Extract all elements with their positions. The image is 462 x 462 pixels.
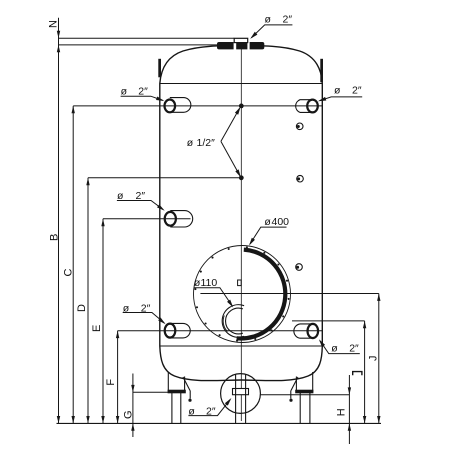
port ø2in bottom-right opening xyxy=(308,324,319,338)
arrow E top xyxy=(101,219,104,226)
arrow G bottom outside xyxy=(131,423,134,430)
port ø2in top-left opening xyxy=(165,100,176,113)
arrow F bottom xyxy=(116,416,119,423)
extension line leg bracket bottom xyxy=(133,391,169,393)
leader bottom-left port label xyxy=(123,313,165,323)
svg-text:E: E xyxy=(91,325,103,332)
port ø2in mid-left opening xyxy=(165,212,176,226)
top dished head xyxy=(160,46,322,84)
leader top flange label xyxy=(252,25,293,38)
lifting lug right xyxy=(320,59,323,83)
svg-text:2″: 2″ xyxy=(136,190,146,202)
ground baseline xyxy=(57,422,382,424)
svg-text:ø: ø xyxy=(334,85,341,97)
dimension line C xyxy=(72,106,74,424)
extension line dome apex xyxy=(59,44,218,46)
stub ø110 mid arc xyxy=(223,316,227,332)
svg-text:2″: 2″ xyxy=(283,13,293,25)
leg left tube xyxy=(171,393,173,423)
extension line drain centre xyxy=(260,394,349,396)
arrow N bottom / B top xyxy=(57,45,60,52)
drain pipe xyxy=(235,375,237,424)
svg-text:ø: ø xyxy=(331,342,338,354)
svg-text:2″: 2″ xyxy=(352,85,362,97)
port ø2in bottom-right body xyxy=(294,324,313,338)
drain spigot rectangle xyxy=(233,389,249,395)
leg right tube xyxy=(299,393,301,423)
dimension line J xyxy=(378,294,380,424)
svg-text:2″: 2″ xyxy=(349,342,359,354)
top flange neck xyxy=(234,38,248,42)
svg-text:ø: ø xyxy=(265,13,272,25)
leader flange ø400 label xyxy=(250,227,287,244)
arrow I bottom xyxy=(363,416,366,423)
sensor node lower on axis xyxy=(239,175,244,180)
sensor node upper on axis xyxy=(239,104,244,109)
bottom dished head xyxy=(160,346,322,381)
stub ø110 inner xyxy=(226,308,243,334)
svg-text:400: 400 xyxy=(272,216,290,228)
dimension line D xyxy=(87,178,89,424)
extension line lower sensor node xyxy=(88,177,241,179)
dimension line F xyxy=(117,331,119,424)
port ø2in bottom-left body xyxy=(170,323,190,338)
thermowell socket mid-right xyxy=(297,175,304,182)
tank shell left wall xyxy=(159,84,161,347)
extension line bottom-right port top xyxy=(292,320,365,322)
leader sensor label lower xyxy=(221,141,240,175)
svg-text:2″: 2″ xyxy=(206,406,216,418)
extension line lower ports xyxy=(118,330,323,332)
arrow C bottom xyxy=(72,416,75,423)
leg right bracket xyxy=(312,372,314,392)
svg-text:ø: ø xyxy=(123,303,130,315)
arrow N top xyxy=(57,31,60,38)
svg-text:G: G xyxy=(122,410,134,419)
thermowell socket upper-right xyxy=(296,123,303,130)
svg-text:ø: ø xyxy=(188,406,195,418)
svg-text:F: F xyxy=(105,379,117,386)
top flange bolt bar xyxy=(217,42,264,49)
tank shell right wall xyxy=(321,84,323,347)
port ø2in top-right opening xyxy=(307,100,318,113)
extension line mid-left port xyxy=(103,218,191,220)
svg-text:B: B xyxy=(49,234,61,241)
leader sensor label upper xyxy=(221,109,239,142)
label I xyxy=(353,372,362,376)
svg-text:N: N xyxy=(47,20,59,28)
leader stub ø110 label xyxy=(194,288,232,306)
top tangent weld line xyxy=(160,83,322,85)
svg-text:ø: ø xyxy=(187,137,194,149)
arrow H bottom outside xyxy=(348,423,351,430)
arrowheads xyxy=(57,31,381,431)
bottom tangent weld line xyxy=(160,345,322,347)
dimension line N B xyxy=(58,18,60,424)
leader mid-left port label xyxy=(117,201,163,210)
arrow J top xyxy=(377,294,380,301)
drain boss circle xyxy=(221,374,261,414)
thermowell socket lower-right xyxy=(296,264,303,271)
flange ø400 heavy bore arc xyxy=(237,250,286,339)
dimension line E xyxy=(102,219,104,424)
port ø2in bottom-left opening xyxy=(165,324,176,338)
flange ø400 outer rim xyxy=(194,246,291,343)
svg-text:1/2″: 1/2″ xyxy=(197,137,216,149)
svg-text:2″: 2″ xyxy=(141,303,151,315)
arrow C top xyxy=(72,106,75,113)
svg-text:2″: 2″ xyxy=(138,85,148,97)
extension line top flange cap xyxy=(59,37,235,39)
lifting lug left xyxy=(158,59,161,78)
arrow I top xyxy=(363,321,366,328)
arrow D top xyxy=(86,178,89,185)
dimension line H xyxy=(348,375,350,444)
svg-text:ø: ø xyxy=(117,190,124,202)
arrow E bottom xyxy=(101,416,104,423)
arrow D bottom xyxy=(86,416,89,423)
port ø2in top-right body xyxy=(296,100,313,113)
centre axis xyxy=(240,49,242,421)
svg-text:ø: ø xyxy=(264,216,271,228)
extension line flange centre xyxy=(200,293,378,295)
dimension line I xyxy=(364,321,366,424)
svg-text:C: C xyxy=(62,269,74,277)
arrow G top outside xyxy=(131,385,134,392)
port ø2in top-left body xyxy=(170,98,191,113)
stub ø110 outer xyxy=(222,305,244,338)
port ø2in mid-left body xyxy=(170,211,192,227)
leader drain label xyxy=(188,400,230,416)
arrow J bottom xyxy=(377,416,380,423)
arrow F top xyxy=(116,331,119,338)
flange ø400 bolt holes xyxy=(194,246,289,341)
leader top-left port label xyxy=(121,96,163,100)
extension line upper ports xyxy=(73,105,322,107)
leader top-right port label xyxy=(320,97,363,101)
arrow H top outside xyxy=(348,387,351,394)
svg-text:ø: ø xyxy=(121,85,128,97)
arrow B bottom xyxy=(57,416,60,423)
small plate on axis above flange xyxy=(238,280,242,286)
svg-text:H: H xyxy=(335,408,347,416)
leg left bracket xyxy=(167,372,169,392)
svg-text:D: D xyxy=(76,304,88,312)
dimension line G xyxy=(132,374,134,438)
svg-text:110: 110 xyxy=(201,277,218,289)
leader bottom-right port label xyxy=(320,341,360,354)
svg-text:J: J xyxy=(368,356,380,362)
